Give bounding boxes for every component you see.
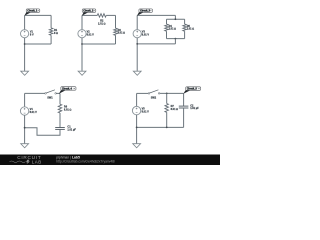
svg-text:SW2: SW2 [151,96,157,99]
wire C2 upper lead (circuit 5) [183,93,185,106]
voltage source V1 [21,30,34,38]
voltage source V3 [133,30,149,38]
resistor R5 [183,24,194,31]
svg-text:2.01 Ω: 2.01 Ω [169,28,177,31]
svg-text:2.01 Ω: 2.01 Ω [98,22,106,25]
CircuitLab logo [10,155,42,165]
node at bottom junction (circuit 1) [24,43,26,45]
switch SW1 [45,90,57,100]
wire left rail upper (circuit 1) [24,15,26,29]
wire stub from bottom bar (circuit 3) [174,39,176,44]
resistor R3 [114,28,125,35]
wire bottom (circuit 1) [25,43,51,45]
resistor R7 [165,104,178,113]
node R7 top (circuit 5) [166,93,168,95]
svg-text:8.01 V: 8.01 V [142,111,150,114]
wire R4 upper lead (circuit 3) [166,19,168,24]
wire C1 bottom jog (circuit 4) [25,128,60,136]
wire bottom (circuit 3) [137,43,175,45]
voltage source V5 [132,106,149,114]
resistor R1 [49,28,58,35]
node bottom bar junction (circuit 3) [175,38,177,40]
capacitor C2 [179,104,199,110]
wire source bottom to ground (circuit 4) [24,115,26,143]
svg-text:8.01 Ω: 8.01 Ω [171,108,179,111]
resistor R6 [58,104,71,113]
flag Circuit_2 [82,9,96,16]
wire left rail upper (circuit 4) [24,93,26,106]
wire R5 lower lead (circuit 3) [184,31,186,38]
ground (circuit 2) [78,71,86,75]
flag Circuit_4 [59,87,76,94]
node top bar junction (circuit 3) [175,18,177,20]
wire left rail upper (circuit 3) [136,15,138,29]
wire left rail upper (circuit 5) [136,93,138,106]
ground (circuit 5) [133,144,141,148]
wire right rail lower (circuit 2) [115,35,117,44]
wire right rail lower (circuit 1) [50,35,52,44]
flag Circuit_3 [137,9,153,16]
resistor R4 [165,24,176,31]
capacitor C1 [55,126,76,132]
svg-text:SW1: SW1 [47,96,53,99]
svg-text:Circuit_2: Circuit_2 [83,10,94,13]
wire right rail upper (circuit 1) [50,15,52,28]
wire source bottom to ground (circuit 3) [136,38,138,71]
wire bottom (circuit 2) [82,43,116,45]
wire parallel top bar (circuit 3) [167,18,185,20]
wire right branch upper (circuit 4) [59,93,61,104]
voltage source V2 [78,30,94,38]
node at return junction (circuit 4) [24,127,26,129]
svg-text:http://circuitlab.com/c/e4hds2: http://circuitlab.com/c/e4hds2x7ryanv48/ [56,159,115,163]
svg-text:1.01 µF: 1.01 µF [190,107,199,110]
wire R7 upper lead (circuit 5) [166,93,168,103]
svg-text:2.01 Ω: 2.01 Ω [187,28,195,31]
flag Circuit_5 [183,87,200,94]
wire top-left segment (circuit 2) [82,14,97,16]
ground (circuit 1) [21,71,29,75]
resistor R2 [97,14,106,26]
wire C2 lower lead (circuit 5) [183,108,185,127]
svg-text:LAB: LAB [32,160,42,165]
wire source bottom to ground (circuit 2) [81,38,83,71]
wire R4 lower lead (circuit 3) [166,31,168,38]
node at bottom junction (circuit 3) [136,43,138,45]
svg-text:Circuit_5: Circuit_5 [187,88,198,91]
svg-text:8 Ω: 8 Ω [54,32,58,35]
svg-text:Circuit_3: Circuit_3 [140,10,151,13]
node R7 bottom (circuit 5) [166,127,168,129]
wire switch to corner (circuit 4) [56,92,60,94]
wire switch to C2 corner (circuit 5) [160,92,184,94]
svg-text:8.01 V: 8.01 V [142,34,150,37]
wire R5 upper lead (circuit 3) [184,19,186,24]
wire top (circuit 1) [25,14,51,16]
wire source bottom to ground (circuit 1) [24,38,26,71]
wire top-left segment (circuit 4) [25,92,45,94]
switch SW2 [148,90,160,100]
svg-text:Circuit_1: Circuit_1 [27,10,38,13]
svg-text:8.01 V: 8.01 V [30,111,38,114]
svg-text:8.01 Ω: 8.01 Ω [118,32,126,35]
wire top-right segment (circuit 2) [106,14,115,16]
wire R6 to C1 (circuit 4) [59,113,61,128]
svg-text:8 V: 8 V [30,34,34,37]
wire bottom (circuit 5) [137,126,184,128]
wire stub to parallel top bar (circuit 3) [174,15,176,19]
ground (circuit 3) [133,71,141,75]
node at return junction (circuit 5) [136,127,138,129]
svg-text:8.01 Ω: 8.01 Ω [64,109,72,112]
wire source bottom to ground (circuit 5) [136,115,138,144]
wire top (circuit 3) [137,14,175,16]
node at bottom junction (circuit 2) [81,43,83,45]
ground (circuit 4) [21,144,29,148]
svg-text:8.01 V: 8.01 V [87,34,95,37]
wire right rail upper (circuit 2) [115,15,117,28]
wire left rail upper (circuit 2) [81,15,83,29]
svg-text:Circuit_4: Circuit_4 [62,88,73,91]
voltage source V4 [20,107,37,115]
wire parallel bottom bar (circuit 3) [167,38,185,40]
wire R7 lower lead (circuit 5) [166,112,168,127]
svg-text:1.01 µF: 1.01 µF [67,129,76,132]
flag Circuit_1 [24,9,39,16]
wire top-left segment (circuit 5) [137,92,149,94]
